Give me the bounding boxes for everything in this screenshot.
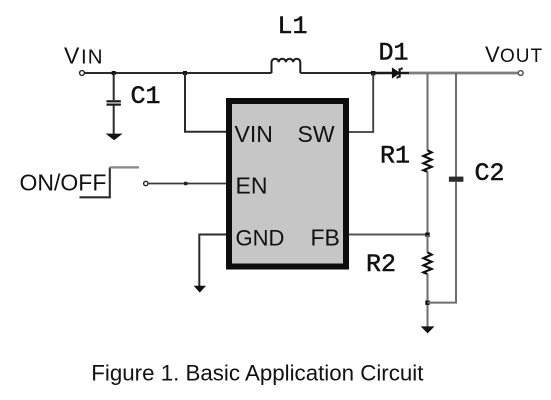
- wire C2 top: [455, 73, 457, 177]
- node VIN label: [64, 43, 104, 69]
- ground (C1): [106, 134, 123, 141]
- svg-text:R1: R1: [380, 142, 410, 171]
- op-amp U1 regulator IC body: [229, 101, 346, 267]
- wire C2 bottom to ground node: [428, 182, 457, 303]
- svg-text:FB: FB: [311, 225, 340, 251]
- wire C1 bottom stub: [113, 106, 115, 134]
- capacitor C2: [449, 177, 464, 182]
- wire C1 top stub: [113, 73, 115, 100]
- svg-text:EN: EN: [236, 173, 268, 199]
- capacitor C1 plates: [107, 101, 121, 104]
- terminal VOUT (open circle): [518, 71, 523, 76]
- terminal EN (open circle): [144, 181, 148, 185]
- svg-text:D1: D1: [379, 39, 409, 68]
- inductor L1: [272, 59, 301, 73]
- svg-text:GND: GND: [236, 226, 285, 251]
- wire D1 cathode to VOUT (gray): [409, 72, 519, 75]
- wire drop to VIN pin: [185, 73, 226, 132]
- svg-text:SW: SW: [298, 121, 335, 147]
- wire R2 top: [427, 235, 429, 253]
- wire FB: [349, 234, 428, 236]
- svg-text:Figure 1. Basic Application Ci: Figure 1. Basic Application Circuit: [91, 361, 424, 386]
- svg-text:R2: R2: [366, 250, 396, 279]
- svg-text:VIN: VIN: [235, 121, 273, 147]
- svg-text:ON/OFF: ON/OFF: [20, 170, 107, 196]
- wire VIN horizontal to inductor: [85, 72, 272, 74]
- node junction SW drop: [371, 71, 375, 75]
- wire L1 to D1 junction: [300, 72, 374, 74]
- svg-text:V: V: [485, 42, 500, 67]
- signal edge symbol (step): [80, 167, 110, 197]
- svg-text:L1: L1: [278, 12, 308, 41]
- wire R1 top: [427, 73, 429, 151]
- wire GND pin: [199, 235, 226, 287]
- node junction R2/C2 bottom: [425, 301, 429, 305]
- svg-text:C1: C1: [131, 82, 161, 111]
- node tick on EN wire: [184, 182, 187, 185]
- ground (output divider): [421, 326, 435, 333]
- svg-text:OUT: OUT: [500, 46, 543, 67]
- node junction FB/R1/R2: [425, 233, 429, 237]
- node junction VIN-pin drop: [183, 71, 187, 75]
- resistor R1: [423, 150, 431, 172]
- resistor R2: [423, 252, 431, 274]
- wire EN: [148, 183, 226, 185]
- ground (GND pin): [194, 286, 206, 293]
- terminal VIN (open circle): [80, 71, 85, 76]
- node junction C1 top: [112, 71, 116, 75]
- wire R2 bottom to ground node: [427, 274, 429, 327]
- svg-text:V: V: [64, 43, 80, 69]
- wire SW drop: [349, 73, 373, 132]
- svg-text:IN: IN: [81, 46, 104, 69]
- svg-text:C2: C2: [475, 159, 505, 188]
- diode D1 (schottky): [393, 67, 402, 78]
- wire R1 bottom to FB node: [427, 172, 429, 235]
- node VOUT label: [485, 42, 543, 67]
- wire junction to D1 anode: [373, 72, 409, 74]
